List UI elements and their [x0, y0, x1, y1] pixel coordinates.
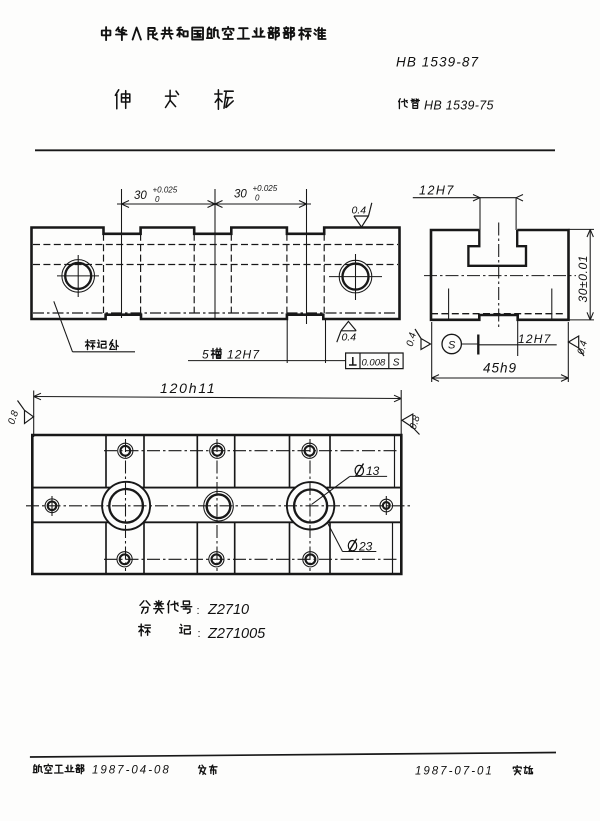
superseded note 代替 HB1539-75	[399, 99, 408, 109]
svg-text:13: 13	[366, 464, 380, 478]
plan view: column lines	[105, 435, 107, 488]
svg-text:1987-04-08: 1987-04-08	[92, 765, 171, 777]
datum symbol S	[442, 334, 461, 353]
svg-text:0.4: 0.4	[342, 332, 357, 344]
svg-text:Z271005: Z271005	[207, 626, 266, 642]
svg-text:HB 1539-75: HB 1539-75	[424, 99, 494, 113]
svg-text:0.008: 0.008	[362, 358, 386, 369]
plan view: bottom row holes	[120, 554, 130, 564]
svg-text::: :	[197, 605, 200, 617]
svg-text:45h9: 45h9	[483, 361, 517, 376]
side view: hidden bottom slot line	[431, 313, 565, 315]
label Φ23 with leader	[328, 523, 343, 552]
footer issuing body 航空工业部	[33, 765, 42, 773]
surface finish 0.4 bottom of front view	[337, 321, 356, 342]
title 伸长板	[115, 90, 129, 109]
front view: slot centre extension lines	[121, 189, 123, 318]
svg-text:5: 5	[202, 348, 209, 362]
svg-text:0: 0	[255, 194, 260, 203]
svg-text::: :	[198, 628, 201, 640]
svg-text:12H7: 12H7	[518, 332, 552, 346]
header rule	[35, 149, 555, 151]
plan view: right end short lines	[394, 435, 396, 488]
side view: T-slot	[468, 230, 526, 266]
surface finish 0.4 top of front view	[354, 203, 372, 227]
side view: part outline	[431, 230, 569, 320]
plan view: big hole right	[294, 490, 327, 523]
feature control frame ⊥ 0.008 S	[346, 353, 404, 369]
svg-text:23: 23	[358, 540, 373, 554]
svg-text:S: S	[393, 358, 400, 369]
front view: hidden line upper slot depth	[33, 244, 398, 246]
plan view: rib band top line	[32, 487, 110, 489]
front view: right hole	[343, 264, 369, 290]
front view: hidden slot side lines	[103, 234, 105, 313]
svg-text:30: 30	[134, 190, 147, 202]
plan view: small end holes	[48, 502, 57, 511]
plan view: vertical centre lines	[125, 439, 127, 571]
front view: left hole	[65, 263, 91, 289]
plan view: boss circle right	[287, 482, 334, 529]
front view: hidden line T-cavity depth	[33, 264, 398, 266]
plan view: rib band bottom line	[32, 521, 108, 523]
surface finish 0.4 right of side view	[569, 336, 585, 356]
plan view: boss circle left	[102, 482, 150, 530]
front view: part outline with 5 slots	[32, 228, 400, 320]
svg-text:12H7: 12H7	[419, 184, 455, 198]
plan view: outer outline	[32, 435, 401, 574]
svg-text:+0.025: +0.025	[153, 186, 178, 195]
svg-text:30: 30	[234, 189, 247, 201]
svg-text:0: 0	[155, 195, 160, 204]
footer 实施	[513, 766, 521, 775]
svg-text:1987-07-01: 1987-07-01	[415, 766, 494, 778]
footer rule	[30, 753, 556, 758]
svg-text:S: S	[448, 340, 456, 352]
plan view: big hole left	[109, 489, 143, 523]
side view: hidden hole marks	[448, 289, 450, 320]
header: standard title 中华人民共和国航空工业部部标准	[102, 27, 111, 40]
surface finish 0.8 left of plan view	[18, 401, 34, 424]
plan view: horizontal centre line	[26, 505, 413, 507]
marking 标记: Z271005	[139, 624, 151, 636]
svg-text:30±0.01: 30±0.01	[576, 255, 590, 303]
front view: hidden line bottom slot depth	[33, 312, 398, 314]
label 标记处 with leader	[85, 340, 95, 350]
svg-text:0.4: 0.4	[352, 205, 367, 217]
svg-text:HB 1539-87: HB 1539-87	[396, 55, 479, 70]
plan view: hole row centre lines	[104, 450, 397, 452]
plan view: middle hole	[207, 494, 231, 518]
dimension 45h9 bottom	[431, 322, 433, 382]
svg-text:120h11: 120h11	[160, 380, 216, 396]
label Φ13 with leader	[312, 476, 350, 504]
surface finish 0.4 left of side view	[415, 329, 431, 350]
classification code 分类代号: Z2710	[140, 601, 150, 613]
dimension 30+0.025 left	[117, 203, 311, 205]
extension lines from slot to label	[286, 320, 288, 364]
svg-text:12H7: 12H7	[227, 348, 260, 362]
side view: vertical centre line	[498, 223, 500, 329]
surface finish 0.8 right of plan view	[402, 414, 420, 435]
svg-text:+0.025: +0.025	[253, 184, 278, 193]
svg-text:Z2710: Z2710	[207, 602, 249, 618]
footer 发布	[199, 765, 206, 774]
dimension 30±0.01 right	[569, 228, 595, 230]
plan view: top row holes	[120, 446, 130, 456]
side view: horizontal centre line	[424, 275, 576, 277]
plan view: end hole vertical ticks	[51, 496, 53, 516]
